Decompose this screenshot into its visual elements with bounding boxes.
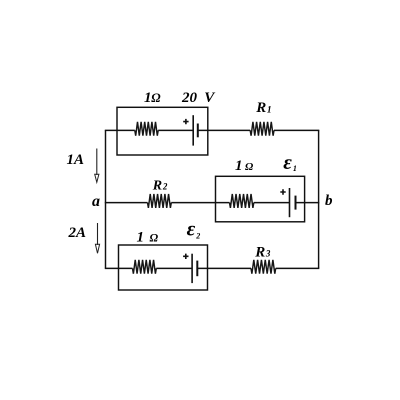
wire: battery to resistor R1 [198,129,250,131]
svg-text:1: 1 [137,229,145,245]
battery box outline (EMF e2 with 1 ohm internal resistance) [119,245,208,290]
battery box outline (20 V source with 1 ohm internal resistance) [117,107,208,155]
battery: 20 V cell plates [192,115,194,145]
wire: coil to battery plates (middle box) [254,202,290,204]
svg-text:Ω: Ω [150,232,159,244]
svg-text:1: 1 [235,158,243,174]
wire: battery to node b [296,202,320,204]
resistor R2 [148,194,172,208]
wire: coil to battery plates (bottom box) [156,267,192,269]
current arrow 2A (downward) [97,223,99,245]
wire: R3 to right bus [276,267,320,269]
wire: top branch, left bus to box [105,129,135,131]
wire: battery to resistor R3 [197,267,251,269]
resistor: 1 ohm internal resistance of e1 [230,194,254,208]
battery: EMF e1 cell plates [289,188,291,217]
wire: R2 to middle battery box [171,202,229,204]
plus terminal of e2 battery [183,254,188,259]
svg-text:b: b [325,193,333,209]
svg-text:20: 20 [181,90,198,106]
svg-text:2A: 2A [68,225,87,241]
svg-text:1: 1 [267,105,272,115]
svg-text:Ω: Ω [245,161,254,173]
current arrow 1A (downward) [96,149,98,176]
wire: R1 to right bus [274,129,319,131]
svg-text:R: R [255,100,266,116]
svg-text:ε: ε [283,150,292,174]
resistor: 1 ohm internal resistance of 20 V battery [135,122,158,136]
svg-text:3: 3 [265,248,271,258]
battery: EMF e2 cell plates [191,254,193,283]
plus terminal of e1 battery [280,189,285,194]
wire: node a to resistor R2 [105,202,148,204]
resistor R1 [250,122,274,136]
svg-text:a: a [92,193,100,210]
svg-text:R: R [254,244,265,260]
svg-text:1: 1 [293,164,297,173]
resistor: 1 ohm internal resistance of e2 [133,260,157,274]
svg-text:1A: 1A [67,152,85,168]
battery box outline (EMF e1 with 1 ohm internal resistance) [216,176,305,222]
svg-text:2: 2 [195,231,200,240]
svg-text:ε: ε [187,217,196,241]
svg-text:Ω: Ω [151,91,161,105]
wire: left vertical bus (node a branch) [105,130,107,268]
plus terminal of 20 V battery [183,119,188,124]
svg-text:2: 2 [162,182,168,192]
wire: right vertical bus (node b branch) [318,130,320,268]
svg-text:R: R [152,178,162,193]
wire: left bus to bottom battery box [105,267,133,269]
wire: coil to battery plates (top box) [158,129,193,131]
resistor R3 [251,260,276,274]
